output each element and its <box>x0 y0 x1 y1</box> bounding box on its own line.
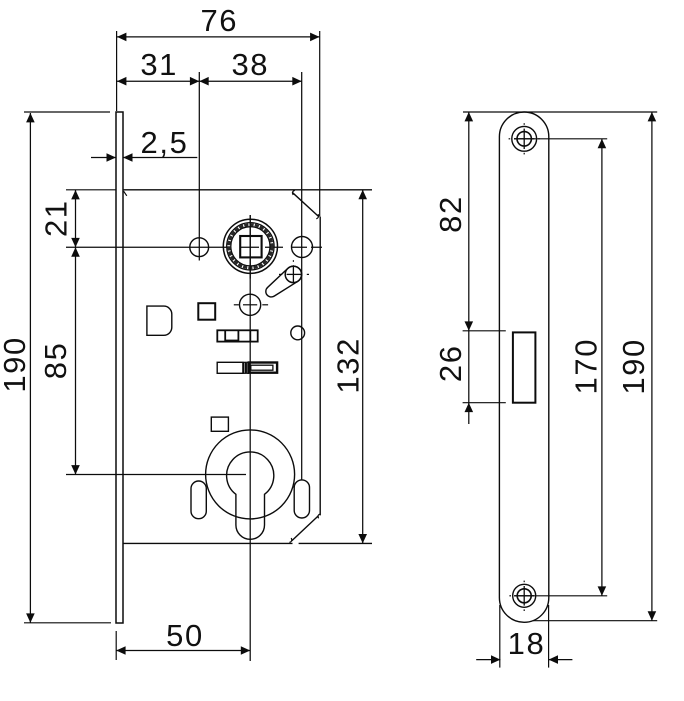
faceplate side view <box>116 112 123 623</box>
dimension 26 <box>468 331 470 424</box>
svg-text:31: 31 <box>140 47 178 82</box>
svg-text:132: 132 <box>330 337 365 394</box>
left oval slot <box>191 481 206 519</box>
svg-text:76: 76 <box>200 3 238 38</box>
right hole extension line (dim 38) <box>301 72 303 481</box>
small square cutout <box>198 303 215 320</box>
dimension 50 <box>116 650 250 652</box>
dimension 18 <box>476 659 500 661</box>
svg-text:190: 190 <box>616 338 651 395</box>
bottom screw hole <box>513 584 536 607</box>
left handle fixing hole <box>190 238 209 257</box>
spindle square hole <box>240 236 261 257</box>
latch slider cells <box>217 330 257 341</box>
dimension 21 <box>75 190 77 247</box>
svg-text:82: 82 <box>433 195 468 233</box>
top screw hole <box>512 126 537 151</box>
dimension 132 <box>362 190 364 544</box>
horizontal centerline through handle holes <box>66 246 322 248</box>
rounded square cutout <box>147 306 172 335</box>
left hole extension line (dim 31/38) <box>198 72 200 261</box>
small round hole <box>291 326 305 340</box>
svg-text:38: 38 <box>231 47 269 82</box>
latch spring slot (hook shape) <box>266 266 302 297</box>
dimension 2,5 <box>91 157 116 159</box>
lock body top edge (extends as extension line for dim 132) <box>123 189 372 191</box>
svg-text:2,5: 2,5 <box>141 125 189 160</box>
vertical centerline of lock <box>249 215 251 661</box>
dimension 82 <box>468 112 470 331</box>
lock body right edge <box>319 217 321 516</box>
right oval slot <box>294 480 309 518</box>
spindle follower hub outer circle <box>223 219 277 273</box>
bottom-right chamfer <box>292 516 319 541</box>
dimension 76 <box>117 36 320 38</box>
bolt head thick rectangle <box>249 363 277 373</box>
dimension 190 right <box>651 112 653 621</box>
dimension 190 left <box>29 113 31 623</box>
lock body top-left corner tick <box>124 191 127 196</box>
strike faceplate front view <box>499 112 548 622</box>
bolt tail rectangle <box>217 362 243 373</box>
small square hole <box>211 417 228 431</box>
spindle follower serrated ring <box>229 225 272 268</box>
svg-text:26: 26 <box>433 344 468 382</box>
lock body bottom edge (extends as extension line for dim 132) <box>123 542 293 544</box>
svg-text:18: 18 <box>508 626 546 661</box>
horizontal centerline through cylinder <box>66 474 246 476</box>
dimension 31 <box>117 80 199 82</box>
euro cylinder profile <box>227 452 274 539</box>
cylinder rosette circle <box>206 430 295 519</box>
bolt head inner rectangle <box>251 365 273 370</box>
dimension 85 <box>75 247 77 474</box>
svg-text:190: 190 <box>0 336 32 393</box>
dimension 38 <box>199 80 301 82</box>
follower vertical centerline <box>249 215 251 279</box>
bolt collar bars <box>244 362 246 373</box>
svg-text:85: 85 <box>38 342 73 380</box>
center hole <box>240 294 261 315</box>
dimension 170 <box>601 139 603 596</box>
top-right chamfer <box>292 192 318 216</box>
svg-text:170: 170 <box>569 338 604 395</box>
svg-text:21: 21 <box>39 199 74 237</box>
latch pivot hole <box>285 266 301 282</box>
right handle fixing hole <box>292 237 313 258</box>
latch window <box>513 332 536 402</box>
svg-text:50: 50 <box>166 618 204 653</box>
